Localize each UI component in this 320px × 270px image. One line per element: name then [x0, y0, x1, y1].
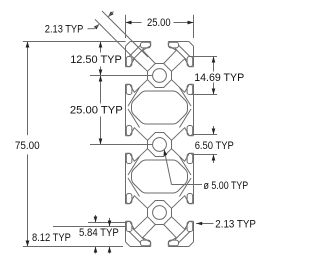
bottom slot lip pockets [141, 240, 179, 246]
right T-slot cavity 2 [172, 128, 194, 162]
profile outer outline with corner chamfers [126, 42, 194, 247]
svg-text:6.50 TYP: 6.50 TYP [195, 140, 234, 152]
svg-text:8.12 TYP: 8.12 TYP [32, 232, 71, 244]
label 5.84 TYP [79, 227, 119, 239]
dimension 25.00 TYP [90, 76, 153, 145]
label 25.00 [147, 17, 171, 29]
right slot 2 lip pockets [187, 126, 193, 164]
left T-slot cavity 1 [126, 59, 148, 93]
dimension 12.50 TYP [90, 42, 153, 76]
center boss 3 [148, 201, 172, 225]
dimension 6.50 TYP [192, 126, 218, 163]
svg-text:14.69 TYP: 14.69 TYP [194, 72, 244, 84]
svg-text:2.13 TYP: 2.13 TYP [215, 219, 256, 231]
center boss 1 [148, 64, 172, 88]
left slot 3 lip pockets [126, 194, 132, 232]
right slot 1 lip pockets [187, 57, 193, 95]
right T-slot cavity 3 [172, 196, 194, 230]
right slot 3 lip pockets [187, 194, 193, 232]
svg-text:25.00: 25.00 [147, 17, 171, 29]
label 75.00 [15, 140, 40, 152]
label 2.13 TYP chamfer [45, 24, 84, 36]
hole 3 (dia 5mm) [153, 206, 167, 220]
svg-text:75.00: 75.00 [15, 140, 40, 152]
left slot 1 lip pockets [126, 57, 132, 95]
dimension 25.00 width [126, 15, 194, 38]
inter-unit cavity 2 [132, 160, 188, 193]
svg-text:25.00 TYP: 25.00 TYP [70, 105, 123, 117]
label 14.69 TYP [194, 72, 244, 84]
dimension 5.84 TYP [53, 218, 127, 254]
inter-unit cavity 1 corner webs [128, 88, 191, 128]
label 8.12 TYP [32, 232, 71, 244]
svg-text:ø 5.00 TYP: ø 5.00 TYP [204, 180, 249, 192]
hole 1 (dia 5mm) [153, 69, 167, 83]
svg-text:2.13 TYP: 2.13 TYP [45, 24, 84, 36]
dimension 14.69 TYP [190, 57, 217, 95]
hole 2 (dia 5mm) [153, 138, 167, 152]
dimension 75.00 height [23, 42, 126, 247]
top T-slot cavity [143, 42, 177, 64]
inter-unit cavity 1 [132, 91, 188, 124]
svg-text:12.50 TYP: 12.50 TYP [70, 54, 122, 66]
dimension 8.12 TYP [88, 215, 127, 254]
top-right corner web [175, 45, 190, 60]
leader 2.13 TYP lip [196, 222, 213, 226]
label 12.50 TYP [70, 54, 122, 66]
center boss 2 [148, 133, 172, 157]
label 25.00 TYP [70, 105, 123, 117]
label dia 5.00 TYP [204, 180, 249, 192]
label 2.13 TYP lip [215, 219, 256, 231]
top-left corner web [129, 45, 144, 60]
top slot lip pockets [141, 42, 179, 48]
left slot 2 lip pockets [126, 126, 132, 164]
left T-slot cavity 3 [126, 196, 148, 230]
right T-slot cavity 1 [172, 59, 194, 93]
bottom T-slot cavity [143, 225, 177, 247]
bottom-left corner web [129, 228, 144, 243]
inter-unit cavity 2 corner webs [128, 157, 191, 197]
dimension 2.13 TYP chamfer [88, 11, 149, 65]
bottom-right corner web [175, 228, 190, 243]
svg-text:5.84 TYP: 5.84 TYP [79, 227, 119, 239]
label 6.50 TYP [195, 140, 234, 152]
left T-slot cavity 2 [126, 128, 148, 162]
leader dia 5.00 [164, 150, 203, 185]
